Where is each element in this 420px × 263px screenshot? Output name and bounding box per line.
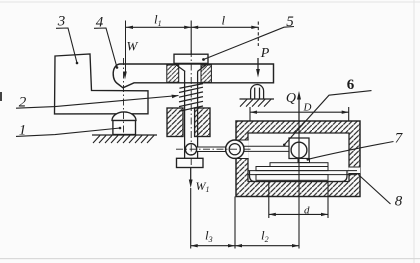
svg-text:W: W [127, 39, 139, 54]
svg-text:3: 3 [57, 14, 66, 30]
svg-text:2: 2 [19, 95, 27, 111]
svg-text:1: 1 [19, 123, 27, 139]
svg-text:6: 6 [347, 77, 355, 93]
svg-text:P: P [260, 46, 270, 61]
svg-text:4: 4 [96, 15, 104, 31]
svg-text:d: d [304, 205, 310, 217]
svg-text:5: 5 [286, 14, 294, 30]
svg-text:D: D [303, 102, 312, 114]
svg-text:l: l [222, 13, 226, 28]
svg-text:Q: Q [286, 91, 296, 106]
svg-text:8: 8 [395, 194, 403, 210]
